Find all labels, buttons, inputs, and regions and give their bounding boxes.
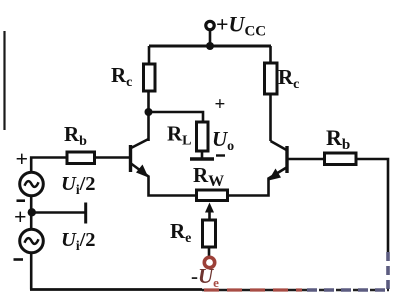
transistor Q2 collector diagonal (271, 141, 287, 150)
wire: left Rc bottom lead (147, 91, 150, 141)
wire: left input top (31, 158, 67, 173)
wire: between sources (30, 195, 33, 230)
resistor Rb (left) (67, 152, 95, 164)
source V2 (bottom) (20, 229, 44, 253)
resistor Re (203, 220, 216, 247)
wire: bottom rail right black bits (302, 289, 389, 292)
wire: bottom rail mid black underlay (202, 289, 302, 292)
wire: Q2 collector lead (269, 94, 272, 141)
junction dot: input center tap (28, 208, 36, 216)
resistor Rc (right) (265, 63, 278, 94)
terminal -Ue (red) (204, 257, 214, 267)
node: Uo bottom bar (190, 157, 214, 160)
label - (Uo) (216, 154, 225, 156)
wire: RL bottom lead (201, 151, 204, 158)
transistor Q1 emitter diagonal (131, 164, 149, 177)
label - (top source) (17, 199, 26, 202)
wire: UCC terminal lead (209, 30, 212, 47)
source V1 (top) (20, 172, 44, 196)
resistor RL (197, 122, 209, 151)
wire: top supply rail (149, 45, 271, 48)
wire: RW wiper stem (208, 211, 211, 220)
wire: left edge bottom (30, 253, 33, 290)
wire: center tap stub (32, 211, 85, 214)
wire: Re bottom lead (208, 247, 211, 258)
wire: Q1 base lead (94, 156, 130, 159)
label - (bottom source) (14, 258, 24, 261)
wire: bottom rail right slate dashes (307, 288, 389, 292)
resistor Rc (left) (144, 64, 156, 91)
wire: Q2 base lead (288, 158, 325, 161)
wire: left Rc top lead (148, 46, 151, 64)
potentiometer RW (197, 190, 228, 201)
wire: node to RL (149, 112, 204, 122)
svg-text:+: + (16, 146, 29, 171)
wire: RW right to Q2 emitter (228, 178, 269, 196)
node: center tap bar (84, 203, 87, 224)
scan border artifact left edge (3, 31, 5, 130)
RW wiper arrow (205, 203, 214, 213)
junction dot: top rail (206, 42, 214, 50)
wire: bottom rail mid red overlay (204, 288, 302, 291)
svg-text:+: + (215, 94, 226, 115)
wire: right edge bottom dashed (386, 252, 390, 290)
transistor Q2 emitter diagonal (269, 168, 287, 179)
svg-text:+: + (14, 204, 27, 229)
wire: right edge top (356, 159, 388, 252)
wire: Q1 emitter lead (149, 176, 197, 196)
terminal +UCC (206, 21, 214, 29)
wire: bottom rail solid (30, 288, 202, 291)
transistor Q1 emitter arrow (136, 165, 149, 178)
transistor Q2 base bar (285, 146, 288, 173)
resistor Rb (right) (325, 153, 357, 165)
wire: right Rc top lead (269, 46, 272, 63)
junction dot: left collector node (145, 108, 153, 116)
transistor Q1 collector diagonal (131, 139, 149, 148)
transistor Q1 base bar (129, 145, 132, 172)
transistor Q2 emitter arrow (269, 169, 282, 181)
